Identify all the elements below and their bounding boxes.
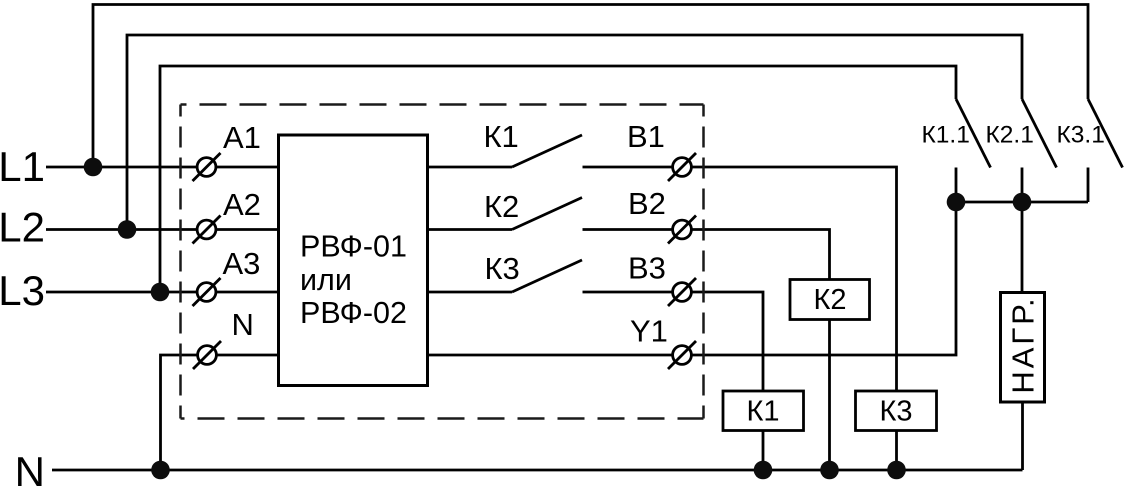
svg-text:А2: А2	[223, 187, 261, 222]
node L1 junction	[84, 158, 103, 177]
switch K2 blade	[512, 198, 582, 230]
switch K1.1 blade	[956, 99, 991, 168]
svg-text:К2: К2	[484, 189, 519, 224]
wire Y1 to K1.1 bottom	[428, 168, 957, 356]
node K1.1 bar junction	[947, 193, 966, 212]
svg-text:К2: К2	[813, 284, 846, 316]
svg-text:В2: В2	[628, 186, 666, 221]
svg-text:К3: К3	[485, 251, 520, 286]
svg-text:N: N	[15, 448, 45, 495]
wire K3 contact left	[428, 291, 513, 294]
node K1 coil bus junction	[754, 461, 773, 480]
node K3 coil bus junction	[887, 461, 906, 480]
switch K3 blade	[512, 260, 582, 292]
wire N terminal lead	[161, 355, 279, 470]
wire B3 to K1 coil	[583, 292, 764, 391]
svg-text:К3.1: К3.1	[1057, 122, 1105, 149]
wire B1 to K3 coil	[583, 167, 897, 391]
switch K2.1 blade	[1022, 99, 1057, 168]
relay box U1 РВФ-01/РВФ-02	[279, 135, 428, 386]
svg-text:Y1: Y1	[630, 314, 668, 349]
terminal A2	[197, 220, 216, 239]
svg-text:К1: К1	[484, 119, 519, 154]
svg-text:А3: А3	[223, 246, 261, 281]
node K2.1 bar junction	[1013, 193, 1032, 212]
terminal Y1	[673, 346, 692, 365]
terminal B2	[673, 220, 692, 239]
wire L2 to K2.1 top	[127, 35, 1022, 230]
wire L2 bus	[46, 228, 279, 231]
node K2 coil bus junction	[820, 461, 839, 480]
wire L3 to K1.1 top	[160, 66, 956, 292]
dashed device boundary top edge	[181, 103, 704, 106]
wire B2 to K2 coil	[583, 230, 830, 280]
dashed device boundary right edge	[702, 105, 705, 419]
svg-text:РВФ-02: РВФ-02	[300, 296, 407, 330]
svg-text:А1: А1	[223, 120, 261, 155]
wire L1 to K3.1 top	[93, 5, 1088, 168]
wire N bus	[52, 469, 1023, 472]
wire load to N bus	[1021, 402, 1024, 470]
svg-text:К3: К3	[879, 396, 912, 428]
svg-text:В1: В1	[627, 119, 665, 154]
svg-text:или: или	[300, 263, 352, 297]
terminal N	[198, 346, 217, 365]
relay coil K3	[856, 391, 937, 431]
wire K1 coil to N bus	[762, 431, 765, 471]
relay coil K2	[790, 280, 870, 320]
node L2 junction	[118, 220, 137, 239]
svg-text:L3: L3	[0, 267, 45, 314]
wire L3 bus	[46, 291, 279, 294]
wire K2 contact left	[428, 228, 513, 231]
load box НАГР.	[1001, 293, 1045, 403]
node N bus left junction	[151, 461, 170, 480]
svg-text:L1: L1	[0, 143, 45, 190]
switch K1 blade	[512, 135, 582, 167]
terminal A3	[197, 283, 216, 302]
terminal B1	[673, 158, 692, 177]
wire K2.1 bottom to load	[1021, 168, 1024, 293]
svg-text:N: N	[232, 307, 254, 342]
svg-text:К1: К1	[746, 396, 779, 428]
svg-text:НАГР.: НАГР.	[1006, 295, 1041, 393]
svg-text:L2: L2	[0, 204, 45, 251]
wire contact junction bar	[956, 201, 1088, 204]
svg-text:РВФ-01: РВФ-01	[300, 230, 407, 264]
wire K1 contact left	[428, 166, 513, 169]
dashed device boundary bottom edge	[181, 417, 704, 420]
wire K3 coil to N bus	[895, 431, 898, 471]
terminal A1	[197, 158, 216, 177]
node L3 junction	[151, 283, 170, 302]
wire K3.1 bottom	[1087, 168, 1090, 203]
relay coil K1	[723, 391, 804, 431]
wire L1 bus	[46, 166, 279, 169]
svg-text:К1.1: К1.1	[922, 122, 970, 149]
terminal B3	[673, 283, 692, 302]
dashed device boundary left edge	[179, 105, 182, 419]
switch K3.1 blade	[1088, 99, 1123, 168]
svg-text:К2.1: К2.1	[986, 122, 1034, 149]
svg-text:В3: В3	[628, 251, 666, 286]
wire K2 coil to N bus	[828, 320, 831, 471]
